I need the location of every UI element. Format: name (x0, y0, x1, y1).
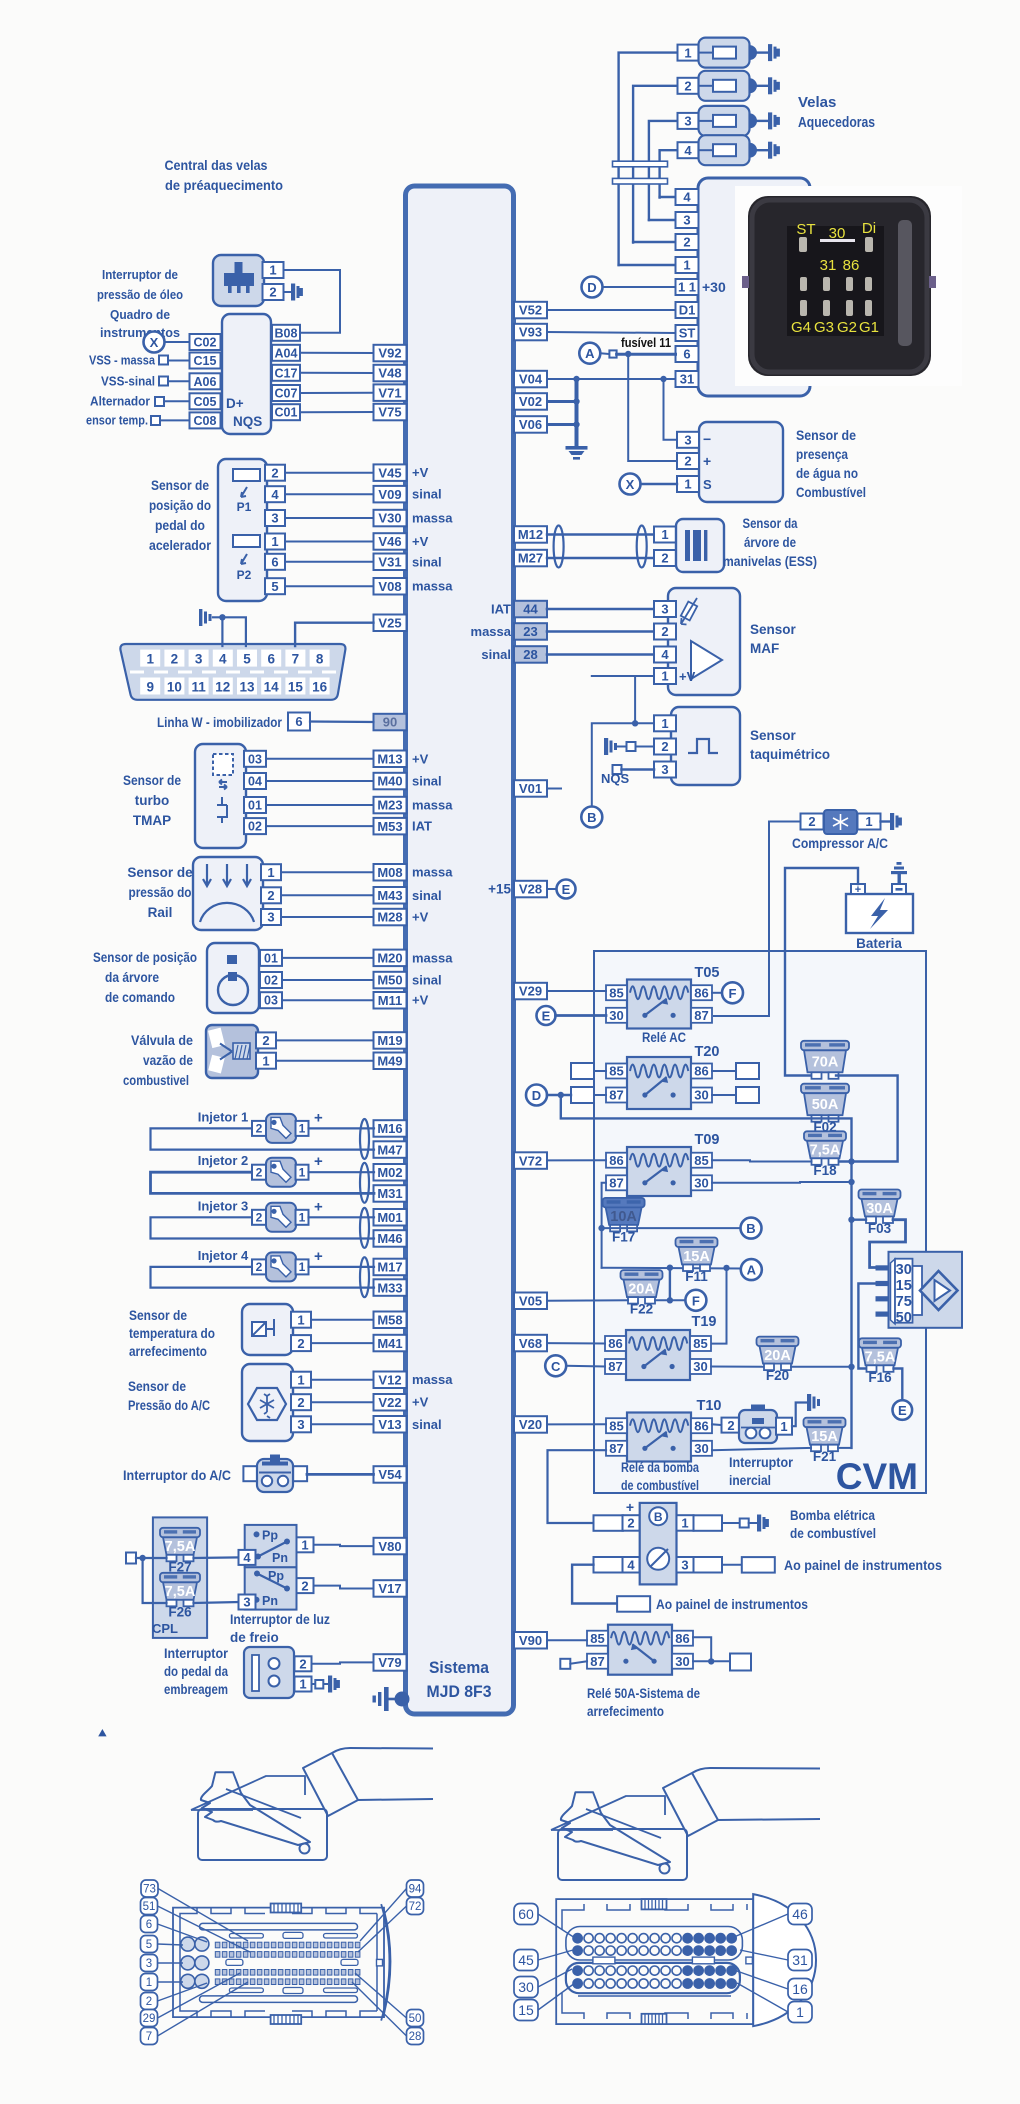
ECU pin V06 (514, 416, 547, 433)
relay pin 11 (676, 279, 699, 295)
wire D down to F02 line (561, 1095, 812, 1118)
svg-text:Sensor de: Sensor de (129, 1308, 187, 1323)
injector 2 pin 1 (296, 1165, 309, 1180)
svg-text:inercial: inercial (729, 1473, 771, 1488)
wire pump pin3 to panel box (722, 1564, 742, 1566)
ECU pin V93 (514, 324, 547, 341)
svg-text:3: 3 (684, 433, 691, 448)
svg-text:3: 3 (267, 910, 274, 925)
svg-text:30: 30 (675, 1654, 689, 1669)
svg-text:massa: massa (412, 1372, 453, 1387)
T20 left empty boxes (571, 1063, 594, 1079)
ECU pin V13 (374, 1416, 407, 1433)
injector 4 body (266, 1252, 296, 1281)
svg-text:B: B (587, 810, 596, 825)
svg-text:V29: V29 (519, 984, 542, 999)
pin B08 (272, 325, 300, 341)
node X water sensor (620, 474, 641, 495)
svg-text:87: 87 (694, 1008, 708, 1023)
svg-text:X: X (150, 335, 159, 350)
connector right bracket (381, 1904, 390, 2021)
wire A line down to T19 85 (712, 1268, 727, 1344)
ECU pin V29 (514, 983, 547, 1000)
svg-text:7,5A: 7,5A (165, 1539, 196, 1555)
clutch switch pin 2 (295, 1656, 312, 1671)
svg-text:sinal: sinal (412, 554, 442, 569)
wire (311, 1423, 374, 1425)
wire C01 to V75 (300, 411, 374, 413)
pin C02 (190, 334, 221, 350)
connector label 50 (407, 2010, 424, 2027)
svg-text:F22: F22 (630, 1302, 653, 1317)
svg-text:15A: 15A (683, 1249, 710, 1265)
compressor icon (824, 810, 857, 834)
ECU pin V17 (374, 1580, 407, 1597)
rail sensor pin 1 (261, 864, 281, 880)
glow plug 4 body (699, 135, 750, 165)
svg-text:massa: massa (412, 865, 453, 880)
svg-text:30: 30 (693, 1359, 707, 1374)
svg-text:6: 6 (295, 714, 302, 729)
svg-text:C15: C15 (194, 354, 217, 368)
pin A06 (190, 373, 221, 389)
fuse F22 20A (621, 1270, 663, 1317)
fuse F20 20A (757, 1337, 799, 1384)
fuse F11 15A (676, 1238, 718, 1285)
svg-text:M19: M19 (377, 1033, 402, 1048)
svg-text:massa: massa (412, 798, 453, 813)
svg-text:86: 86 (843, 257, 860, 274)
pin C07 (272, 385, 300, 401)
svg-text:M20: M20 (377, 951, 402, 966)
node D to +30 (582, 277, 603, 298)
AC pressure pin 1 (291, 1372, 311, 1388)
svg-text:2: 2 (684, 79, 691, 94)
svg-text:Sensor de posição: Sensor de posição (93, 950, 197, 965)
ECU pin V04 (514, 371, 547, 388)
svg-text:Linha W - imobilizador: Linha W - imobilizador (157, 715, 283, 730)
MAF pin 1 (654, 668, 676, 684)
svg-text:23: 23 (523, 624, 537, 639)
svg-text:A04: A04 (275, 346, 298, 360)
svg-text:D: D (587, 280, 596, 295)
svg-text:2: 2 (297, 1395, 304, 1410)
accelerator pedal sensor box (218, 459, 267, 601)
svg-text:3: 3 (271, 511, 278, 526)
svg-text:87: 87 (609, 1088, 623, 1103)
wire to water sensor pin 2 (628, 354, 680, 461)
svg-text:15: 15 (288, 680, 304, 695)
wire battery to 70A fuse (785, 868, 858, 1076)
OBD pin 3 (189, 650, 209, 667)
immobiliser pin 6 (288, 713, 310, 731)
svg-text:P1: P1 (237, 500, 252, 514)
wire V29 to T05 85 (547, 990, 606, 992)
fuse F27 7.5A (160, 1528, 200, 1575)
ECU pin M16 (374, 1120, 407, 1137)
P1 track resistor (233, 469, 260, 481)
svg-text:acelerador: acelerador (149, 538, 212, 553)
OBD pin 15 (285, 678, 305, 695)
injector 4 wire to ECU (309, 1266, 375, 1268)
svg-text:3: 3 (684, 114, 691, 129)
glow plug 1 pin 1 (678, 45, 699, 61)
svg-text:86: 86 (694, 1418, 708, 1433)
svg-text:4: 4 (684, 143, 692, 158)
wire T20 30 right (712, 1094, 736, 1096)
wire (160, 419, 190, 421)
wire AC switch to V54 (307, 1473, 374, 1476)
svg-text:1: 1 (301, 1538, 308, 1553)
wire A04 to V92 (300, 352, 374, 354)
svg-text:4: 4 (243, 1550, 251, 1565)
connector label 15 (514, 2000, 538, 2021)
ECU pin V54 (374, 1466, 407, 1483)
wire (281, 894, 374, 896)
svg-text:1: 1 (681, 1516, 688, 1531)
T20 right empty boxes (736, 1063, 759, 1079)
svg-text:1: 1 (796, 2004, 804, 2020)
brake light switch lower box (245, 1567, 297, 1609)
pin C05 (190, 393, 221, 409)
svg-text:V45: V45 (378, 465, 401, 480)
svg-text:pedal do: pedal do (155, 518, 205, 533)
node F T05 86 (712, 992, 722, 994)
svg-text:Sensor de: Sensor de (128, 1379, 186, 1394)
wire to water sensor pin 3 (664, 379, 681, 440)
injector 2 wire to ECU (309, 1171, 375, 1173)
relay pin 4 (676, 189, 699, 205)
stub F22 to F11 line (669, 1268, 671, 1301)
wire C07 to V71 (300, 392, 374, 394)
ECU pin V71 (374, 384, 407, 401)
node X cluster (144, 332, 165, 353)
svg-text:de combustível: de combustível (621, 1478, 699, 1493)
wire (285, 493, 374, 495)
svg-text:do pedal da: do pedal da (164, 1664, 228, 1679)
svg-text:Velas: Velas (798, 94, 836, 111)
svg-text:V46: V46 (378, 534, 401, 549)
glow plug 3 body (699, 106, 750, 136)
svg-text:V75: V75 (378, 405, 401, 420)
svg-text:+V: +V (679, 669, 696, 684)
relay pin D1 (676, 302, 699, 318)
MAF pin 3 (654, 601, 676, 617)
ECU pin V68 (514, 1335, 547, 1352)
svg-text:3: 3 (661, 602, 668, 617)
ECU pin M53 (374, 818, 407, 835)
svg-text:M08: M08 (377, 865, 402, 880)
wire branch up to MAF +V (634, 676, 636, 723)
svg-text:2: 2 (661, 739, 668, 754)
svg-text:Aquecedoras: Aquecedoras (798, 114, 875, 131)
svg-text:D1: D1 (679, 303, 696, 318)
injector 4 connector ellipse (360, 1257, 369, 1297)
connector label 6 (141, 1916, 158, 1933)
svg-text:massa: massa (412, 950, 453, 965)
svg-text:C08: C08 (194, 414, 217, 428)
wire F26 to brake pin 3 (194, 1602, 240, 1603)
connector label 1 (141, 1974, 158, 1991)
svg-text:Sistema: Sistema (429, 1659, 490, 1677)
OBD pin 8 (310, 650, 330, 667)
pedal sensor pin 6 (265, 554, 285, 570)
svg-text:15A: 15A (811, 1429, 838, 1445)
svg-text:86: 86 (694, 985, 708, 1000)
svg-text:+: + (314, 1109, 323, 1126)
svg-text:arrefecimento: arrefecimento (129, 1344, 207, 1359)
svg-text:V79: V79 (378, 1655, 401, 1670)
svg-text:2: 2 (808, 814, 815, 829)
svg-text:1: 1 (684, 45, 691, 60)
rail sensor pin 2 (261, 887, 281, 903)
connector label 72 (407, 1898, 424, 1915)
glow plug 2 wire (633, 86, 678, 243)
battery lightning icon (870, 898, 888, 929)
coolant temp pin 2 (291, 1335, 311, 1351)
pedal sensor pin 2 (265, 465, 285, 481)
svg-text:C05: C05 (194, 395, 217, 409)
svg-text:85: 85 (693, 1336, 707, 1351)
svg-text:M49: M49 (377, 1053, 402, 1068)
ECU pin V48 (374, 365, 407, 382)
inertia switch pin 1 (776, 1418, 792, 1435)
svg-text:30: 30 (896, 1262, 912, 1278)
injector 1 pin 2 (252, 1121, 266, 1136)
wire F21 to bus (838, 1447, 852, 1449)
svg-text:50A: 50A (812, 1097, 839, 1113)
svg-text:2: 2 (299, 1657, 306, 1672)
wire T09 30 right (712, 1181, 852, 1184)
svg-text:+V: +V (412, 1395, 429, 1410)
svg-text:30: 30 (518, 1979, 534, 1995)
svg-text:B: B (746, 1221, 755, 1236)
camshaft sensor icon (227, 955, 237, 964)
svg-text:F17: F17 (612, 1229, 635, 1244)
relay pin 1 (676, 257, 699, 273)
svg-text:Sensor de: Sensor de (123, 773, 181, 788)
svg-text:Pn: Pn (262, 1594, 278, 1608)
svg-text:M43: M43 (377, 888, 402, 903)
svg-text:50: 50 (896, 1310, 912, 1326)
OBD pin 1 (140, 650, 160, 667)
wire V72 to T09 86 (547, 1159, 606, 1161)
svg-text:+V: +V (412, 465, 429, 480)
svg-text:G1: G1 (859, 319, 879, 336)
svg-text:30: 30 (694, 1441, 708, 1456)
ECU pin M27 (514, 550, 547, 567)
ECU pin V09 (374, 486, 407, 503)
svg-text:+V: +V (412, 993, 429, 1008)
svg-text:2: 2 (683, 235, 690, 250)
battery chassis symbol (891, 862, 907, 884)
svg-text:7,5A: 7,5A (165, 1584, 196, 1600)
svg-text:V30: V30 (378, 511, 401, 526)
svg-text:V72: V72 (519, 1153, 542, 1168)
svg-text:30A: 30A (866, 1201, 893, 1217)
svg-text:V52: V52 (519, 303, 542, 318)
svg-text:Injetor 1: Injetor 1 (198, 1109, 249, 1124)
wire (168, 380, 190, 382)
svg-text:M23: M23 (377, 798, 402, 813)
svg-text:+: + (855, 884, 861, 896)
svg-text:Bateria: Bateria (856, 936, 902, 951)
wire inertia pin1 to ground (792, 1403, 807, 1427)
glow plug 4 pin 4 (678, 142, 699, 158)
svg-text:CVM: CVM (836, 1456, 918, 1497)
svg-text:85: 85 (694, 1153, 708, 1168)
svg-text:Sensor de: Sensor de (151, 478, 209, 493)
ECU pin M13 (374, 751, 407, 768)
wire F16 to node E (894, 1369, 903, 1400)
ground bus V04 V02 V06 (575, 379, 579, 446)
svg-text:Combustível: Combustível (796, 485, 866, 500)
svg-text:MAF: MAF (750, 641, 779, 656)
AC pressure pin 2 (291, 1394, 311, 1410)
connector label 94 (407, 1880, 424, 1897)
svg-text:posição do: posição do (149, 498, 211, 513)
svg-text:A06: A06 (194, 375, 217, 389)
ECU pin M01 (374, 1209, 407, 1226)
wire (281, 871, 374, 873)
svg-text:vazão de: vazão de (143, 1053, 193, 1068)
connector label 3 (141, 1955, 158, 1972)
svg-text:7,5A: 7,5A (810, 1143, 841, 1159)
wire C17 to V48 (300, 372, 374, 374)
tach sensor box (671, 707, 740, 785)
svg-text:7: 7 (292, 652, 300, 667)
connector left round cavities (181, 1937, 209, 1988)
svg-text:sinal: sinal (412, 774, 442, 789)
svg-text:V20: V20 (519, 1417, 542, 1432)
svg-text:M47: M47 (377, 1142, 402, 1157)
svg-text:TMAP: TMAP (133, 813, 171, 828)
relay pin 3 (676, 212, 699, 228)
oil switch pin 2 (263, 284, 284, 300)
wire M12 to ESS pin1 (547, 533, 654, 535)
oil switch ground (284, 291, 292, 293)
svg-text:F03: F03 (868, 1221, 892, 1236)
svg-text:V01: V01 (519, 781, 542, 796)
AC pressure pin 3 (291, 1416, 311, 1432)
fuel pump pin boxes (594, 1515, 623, 1531)
svg-text:1: 1 (780, 1419, 787, 1434)
svg-text:temperatura do: temperatura do (129, 1326, 215, 1341)
ECU pin M17 (374, 1259, 407, 1276)
water sensor pin 2 (677, 453, 699, 469)
svg-text:1 1: 1 1 (678, 280, 696, 295)
svg-text:T10: T10 (697, 1398, 722, 1414)
tach pin 3 connector (613, 765, 622, 774)
ECU pin V46 (374, 533, 407, 550)
ignition pins (876, 1265, 889, 1270)
svg-text:V71: V71 (378, 385, 401, 400)
svg-text:F21: F21 (813, 1449, 837, 1464)
wire 28 to MAF pin4 (547, 653, 654, 656)
MAF icon temp resistor (681, 602, 697, 621)
TMAP chip icon (213, 754, 233, 775)
injector 2 pin 2 (252, 1165, 266, 1180)
svg-text:M12: M12 (518, 527, 543, 542)
svg-text:S: S (703, 477, 712, 492)
glow plug 4 terminal (757, 149, 768, 151)
ECU pin M11 (374, 992, 407, 1009)
svg-text:V68: V68 (519, 1336, 542, 1351)
fuel valve pin 1 (256, 1053, 276, 1069)
relay pin ST (676, 325, 699, 341)
fuel pump body (640, 1503, 677, 1585)
svg-text:30: 30 (694, 1175, 708, 1190)
connector label 29 (141, 2010, 158, 2027)
svg-text:1: 1 (299, 1677, 306, 1692)
svg-text:M46: M46 (377, 1231, 402, 1246)
ECU pin V52 (514, 302, 547, 319)
camshaft sensor pin 02 (260, 972, 282, 988)
svg-text:VSS-sinal: VSS-sinal (101, 375, 155, 389)
line F11 to node A (602, 1267, 741, 1270)
fuse 70A (801, 1041, 849, 1079)
svg-text:M28: M28 (377, 910, 402, 925)
svg-text:1: 1 (661, 527, 668, 542)
relay pin 2 (676, 234, 699, 250)
svg-text:6: 6 (683, 347, 690, 362)
brake light switch upper box (245, 1525, 297, 1567)
TMAP pin 02 (244, 818, 266, 834)
svg-text:arrefecimento: arrefecimento (587, 1704, 664, 1719)
injector 1 loop wire (151, 1128, 375, 1149)
glow plug 2 terminal (757, 85, 768, 87)
wire (311, 1342, 374, 1344)
svg-text:4: 4 (661, 647, 669, 662)
wire (282, 999, 374, 1001)
svg-text:Injetor 2: Injetor 2 (198, 1153, 249, 1168)
ECU pin V90 (514, 1632, 547, 1649)
ESS connector ellipse 1 (554, 526, 564, 568)
svg-text:51: 51 (143, 1901, 156, 1913)
svg-text:A: A (747, 1263, 757, 1278)
wire (285, 561, 374, 563)
rail sensor pin 3 (261, 909, 281, 925)
svg-text:turbo: turbo (135, 793, 170, 808)
relay 50A cooling system (608, 1625, 672, 1675)
wire (285, 472, 374, 474)
svg-text:C17: C17 (275, 366, 298, 380)
svg-text:F16: F16 (868, 1370, 892, 1385)
svg-text:A: A (585, 346, 595, 361)
wire T19 30 to F20 (711, 1366, 764, 1368)
svg-text:sinal: sinal (481, 647, 511, 662)
svg-text:5: 5 (146, 1939, 152, 1951)
camshaft sensor pin 03 (260, 992, 282, 1008)
AC switch icon (243, 1466, 258, 1481)
svg-text:combustivel: combustivel (123, 1073, 189, 1088)
fuel gauge icon (647, 1548, 669, 1570)
svg-text:Interruptor do A/C: Interruptor do A/C (123, 1468, 231, 1483)
svg-text:NQS: NQS (233, 414, 262, 429)
svg-text:4: 4 (627, 1557, 635, 1572)
wire F03 left to bus (852, 1218, 867, 1220)
svg-text:75: 75 (896, 1294, 912, 1310)
ECU Sistema MJD 8F3 box (406, 186, 514, 1714)
svg-text:V08: V08 (378, 579, 401, 594)
svg-text:1: 1 (271, 534, 278, 549)
svg-text:G4: G4 (791, 319, 811, 336)
bus junctions (848, 1158, 854, 1164)
MAF sensor box (668, 588, 740, 695)
svg-text:de freio: de freio (230, 1630, 279, 1645)
svg-text:M41: M41 (377, 1336, 402, 1351)
svg-text:sinal: sinal (412, 973, 442, 988)
